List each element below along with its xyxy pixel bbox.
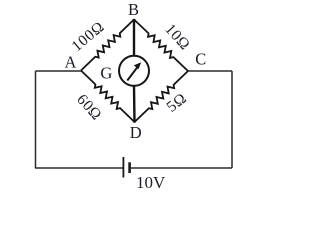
wire: right vertical: [231, 71, 233, 168]
wire: right corner to C: [188, 70, 232, 72]
svg-text:10Ω: 10Ω: [161, 21, 193, 54]
svg-text:60Ω: 60Ω: [73, 91, 105, 124]
svg-text:100Ω: 100Ω: [68, 18, 107, 55]
battery B1 long plate: [122, 157, 124, 178]
wire: left vertical: [35, 71, 37, 168]
resistor 100ohm (arm A-B): [81, 20, 134, 71]
svg-text:D: D: [130, 123, 142, 142]
battery B1 short plate: [128, 162, 131, 173]
resistor 10ohm (arm B-C): [134, 20, 188, 72]
galvanometer needle arrow: [127, 65, 139, 81]
svg-text:10V: 10V: [136, 173, 166, 192]
wire: galvanometer bottom to D: [133, 87, 136, 123]
galvanometer U1 body: [119, 56, 149, 86]
wire: battery to bottom right: [131, 167, 232, 169]
svg-text:A: A: [65, 53, 77, 72]
resistor 5ohm (arm D-C): [135, 71, 189, 122]
node B junction: [132, 19, 136, 23]
wire: B to galvanometer top: [133, 20, 135, 57]
svg-text:B: B: [128, 0, 139, 19]
wire: A to left corner: [36, 70, 82, 72]
node D junction: [133, 119, 137, 123]
svg-text:C: C: [195, 49, 206, 68]
svg-text:G: G: [100, 64, 112, 83]
wire: bottom left to battery: [35, 167, 123, 169]
resistor 60ohm (arm A-D): [81, 71, 135, 123]
